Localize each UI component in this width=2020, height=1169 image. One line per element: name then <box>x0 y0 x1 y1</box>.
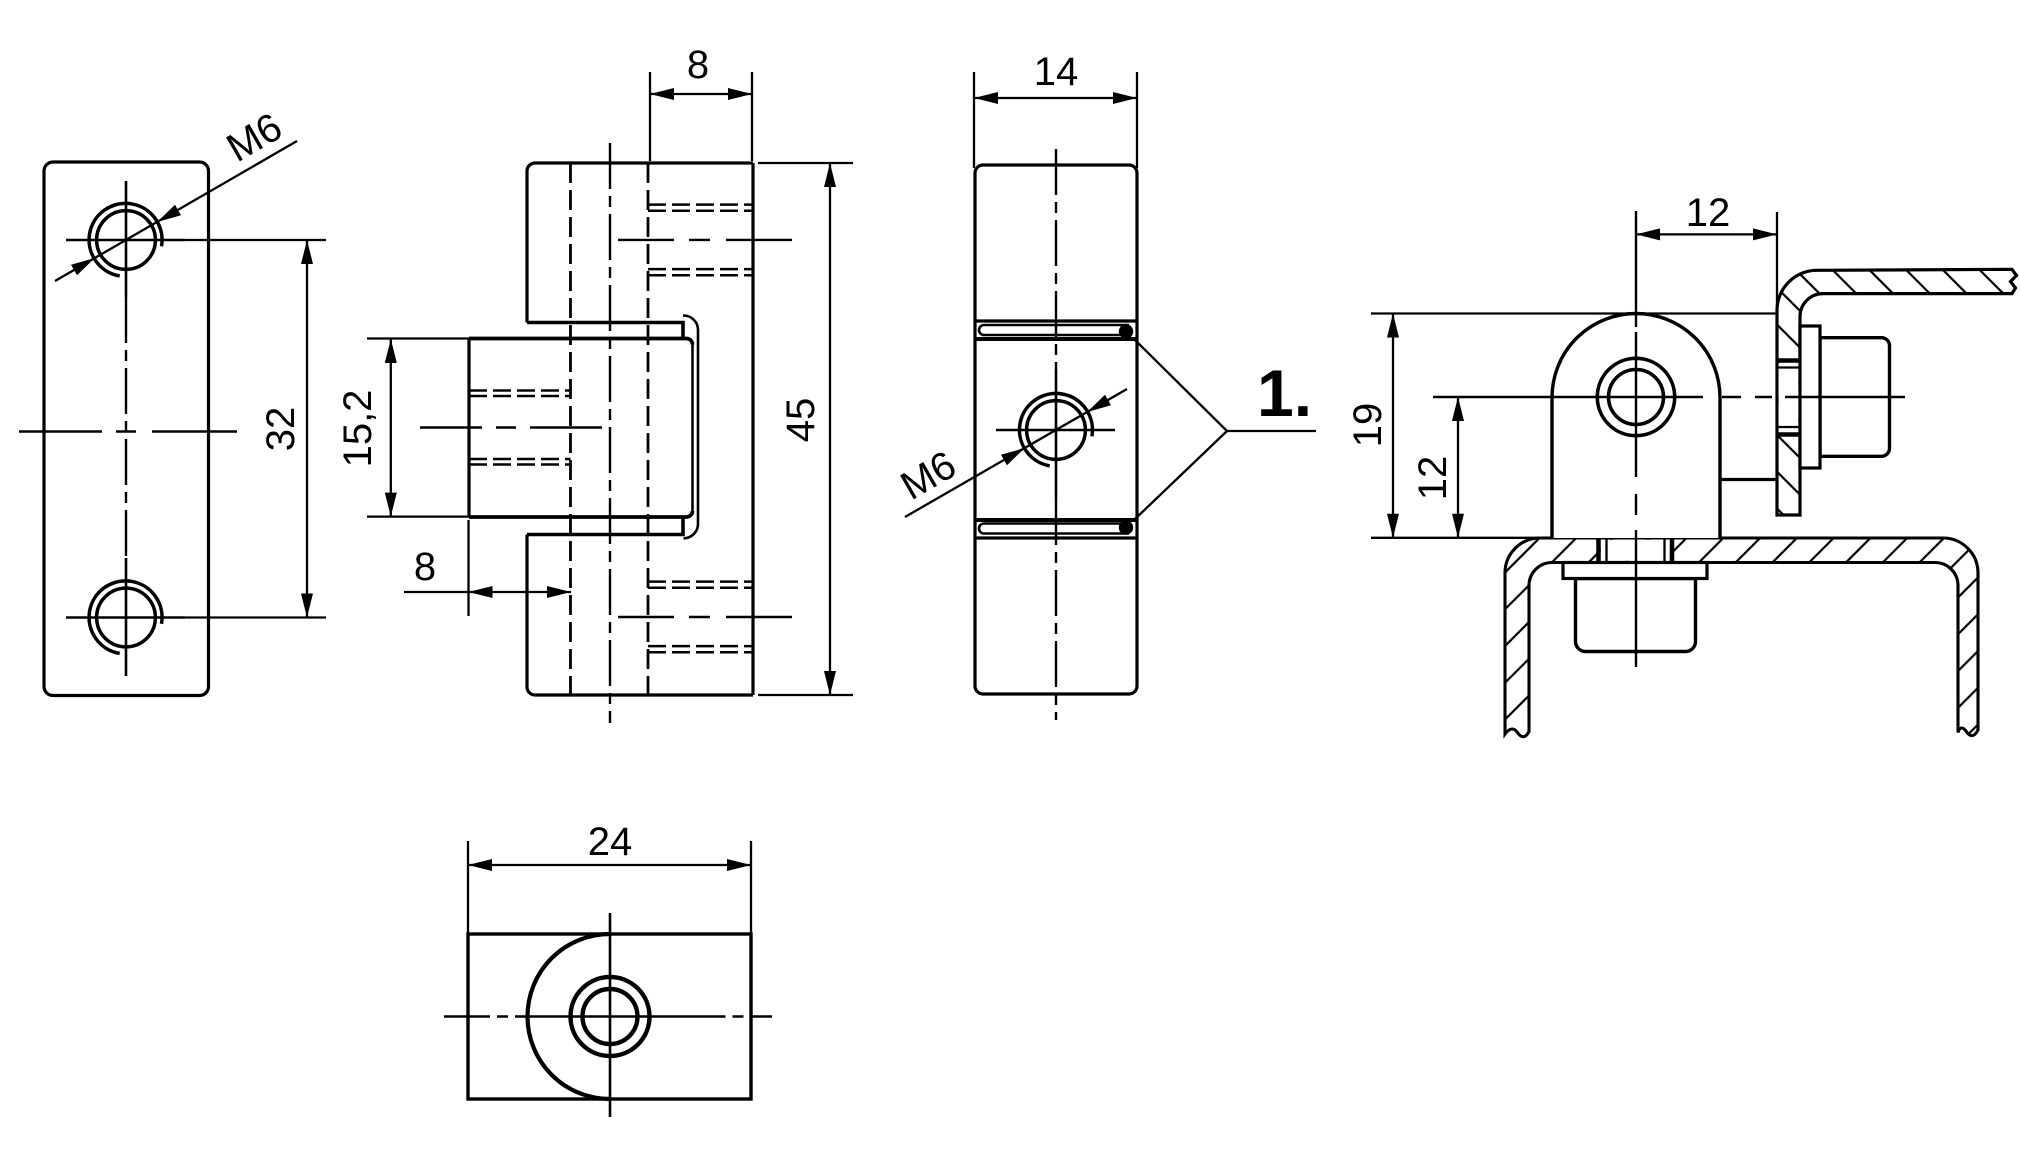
view3 dim 14 line <box>974 97 1137 99</box>
view1 bottom hole crosshair <box>66 558 185 676</box>
view3 nut block top edge <box>975 337 1137 341</box>
svg-text:14: 14 <box>1034 50 1079 94</box>
view2 hinge plate top edge <box>527 163 753 171</box>
view3 lower clip rivet dot <box>1119 520 1133 534</box>
view1 top hole extension line to dim 32 <box>185 239 326 241</box>
view2 dim 15,2 extension lines <box>367 339 469 517</box>
view2 nut block left edge <box>467 339 470 518</box>
view3 dim 14 arrows <box>974 92 998 104</box>
svg-text:1.: 1. <box>1257 356 1312 430</box>
view2 dim 45 arrows <box>824 163 836 187</box>
view2 top ear bottom edge and stub <box>527 323 683 339</box>
view3 top body section <box>975 165 1137 339</box>
view2 dim 45 extension lines <box>758 163 853 695</box>
assembly right nut <box>1820 338 1890 457</box>
view2 dim 8 bottom extension line <box>467 520 469 616</box>
assembly dim 12 top arrows <box>1636 228 1660 240</box>
view1 bottom hole thread arc <box>89 581 162 654</box>
VIEW3 <box>1346 191 2017 737</box>
assembly vertical centerline <box>1635 211 1637 667</box>
svg-text:12: 12 <box>1411 456 1455 501</box>
svg-text:19: 19 <box>1346 403 1390 448</box>
assembly bottom extension line <box>1371 537 1545 539</box>
view5 nut block top view outline <box>468 934 751 1099</box>
view5 hole outer circle <box>571 977 650 1056</box>
view1 dim 32 arrow up <box>301 240 313 264</box>
view3 nut block side edges <box>975 339 1137 520</box>
assembly dim 19 arrows <box>1387 314 1399 338</box>
view5 hole inner circle <box>583 989 638 1044</box>
assembly upper sheet hole edges <box>1777 361 1800 435</box>
assembly dim 12 left line <box>1457 397 1459 538</box>
callout 1. horizontal leader <box>1227 430 1316 432</box>
VIEW4 <box>444 820 772 1117</box>
hinge pivot hole outer circle <box>1597 358 1674 435</box>
view2 dim 8 top line <box>650 93 752 95</box>
view3 M6 arrow upper <box>1087 395 1111 412</box>
assembly dim 12 top line <box>1636 233 1777 235</box>
view2 hidden line left <box>569 163 572 695</box>
view1 dim 32 arrow down <box>301 594 313 618</box>
view1 M6 arrow upper <box>157 205 181 222</box>
view2 dim 15,2 arrows <box>385 339 397 363</box>
view2 nut block bottom edge <box>469 511 693 517</box>
svg-text:24: 24 <box>588 820 633 864</box>
view1 mounting plate outline <box>44 162 209 696</box>
assembly lower sheet metal section hatched <box>1505 538 1978 737</box>
view5 dim 24 arrows <box>468 859 492 871</box>
callout 1. upper leader <box>1135 340 1227 431</box>
view3 vertical centerline <box>1055 149 1057 370</box>
view3 M6 leader line <box>905 389 1127 517</box>
view2 clip inner fold line <box>691 345 694 512</box>
view2 hinge plate bottom edge <box>527 687 753 695</box>
svg-text:15,2: 15,2 <box>336 390 380 468</box>
view3 hole thread arc M6 <box>1019 393 1092 465</box>
hinge lug step line <box>1720 478 1777 481</box>
view2 top hole thread hidden lines <box>648 205 753 276</box>
view5 dim 24 line <box>468 864 751 866</box>
view3 hole crosshair <box>996 370 1115 499</box>
view2 dim 8 top arrows <box>650 88 674 100</box>
view2 hidden line right <box>647 163 650 695</box>
view2 bottom hole axis centerline <box>618 616 792 618</box>
view1 vertical centerline <box>125 297 127 558</box>
view2 hinge plate right edge <box>751 163 754 695</box>
view3 lower clip strap section <box>984 524 1129 534</box>
svg-text:8: 8 <box>687 43 709 87</box>
view1 top hole thread arc M6 <box>89 203 162 276</box>
view1 M6 leader line <box>55 141 297 281</box>
svg-text:12: 12 <box>1686 191 1731 235</box>
view2 bottom hole thread hidden lines <box>648 582 753 653</box>
assembly upper sheet metal section hatched <box>1777 269 2017 515</box>
hinge lug body outline <box>1552 314 1720 539</box>
view1 M6 arrow lower <box>71 258 95 275</box>
view2 dim 8 bottom arrows <box>469 586 493 598</box>
view5 rounded end semicircle <box>527 934 610 1099</box>
view2 vertical centerline <box>609 143 611 723</box>
assembly top extension line <box>1371 312 1777 314</box>
hinge pivot hole inner circle <box>1609 370 1664 425</box>
view3 nut block bottom edge <box>975 518 1137 522</box>
assembly dim 19 line <box>1392 314 1394 538</box>
view2 block thread hidden lines <box>469 391 571 465</box>
view2 clip outer fold line <box>683 315 698 538</box>
assembly upper sheet hole band whiteout <box>1779 363 1799 432</box>
view3 bottom body section <box>975 520 1137 694</box>
svg-text:45: 45 <box>779 398 823 443</box>
view2 bottom ear left edge <box>525 535 528 688</box>
assembly lower sheet stud hole edges <box>1599 538 1673 563</box>
assembly lower sheet hole whiteout <box>1601 540 1670 561</box>
view5 hole crosshair <box>541 913 680 1117</box>
view1 top hole minor circle <box>97 211 156 270</box>
view1 top hole crosshair <box>66 181 185 297</box>
hinge lug body fill <box>1552 314 1720 539</box>
view3 dim 14 extension lines <box>974 72 1137 168</box>
view3 upper clip strap section <box>984 325 1129 335</box>
view1 bottom hole minor circle <box>97 588 156 647</box>
view2 dim 45 line <box>829 163 831 695</box>
svg-text:32: 32 <box>259 407 303 452</box>
assembly horizontal centerline <box>1433 396 1905 398</box>
callout 1. lower leader <box>1135 431 1227 519</box>
view2 block hole axis centerline <box>420 426 602 428</box>
assembly lower serrated washer <box>1563 563 1707 579</box>
assembly dim 12 left arrows <box>1452 397 1464 421</box>
view2 bottom ear top edge and stub <box>527 517 683 535</box>
VIEW1 <box>336 43 853 723</box>
assembly right serrated washer <box>1800 326 1820 468</box>
view5 horizontal centerline <box>444 1015 541 1017</box>
view3 hole minor circle <box>1027 401 1086 460</box>
view2 dim 8 bottom line <box>404 591 571 593</box>
svg-text:8: 8 <box>414 545 436 589</box>
view3 upper clip rivet dot <box>1119 324 1133 338</box>
view2 dim 15,2 line <box>390 339 392 517</box>
view1 mid horizontal centerline <box>19 430 237 432</box>
view1 dim 32 line <box>306 240 308 618</box>
view3 M6 arrow lower <box>1001 448 1025 465</box>
assembly lower nut <box>1576 579 1696 652</box>
view2 top ear left edge <box>525 171 528 323</box>
view5 dim 24 extension lines <box>468 841 751 934</box>
assembly dim 12 top extension line <box>1776 212 1778 311</box>
view1 bottom hole extension line <box>185 616 326 618</box>
view2 nut block top edge <box>469 339 693 345</box>
view2 dim 8 top extension lines <box>650 72 752 161</box>
view2 top hole axis centerline <box>618 239 792 241</box>
VIEW2 <box>893 50 1316 720</box>
